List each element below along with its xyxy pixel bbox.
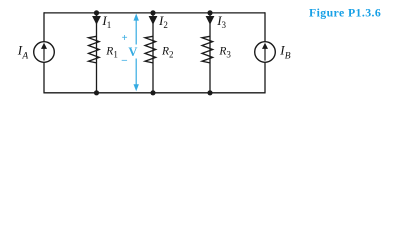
svg-text:I2: I2 (158, 13, 168, 30)
wire branch 2 (152, 13, 154, 93)
node top branch 1 (94, 10, 99, 15)
current source IA (34, 42, 55, 63)
svg-text:–: – (121, 55, 128, 66)
voltage arrow V (134, 14, 139, 92)
wire right branch (264, 12, 266, 93)
current arrow I1 (92, 16, 101, 25)
current arrow I2 (149, 16, 158, 25)
resistor R3 (202, 36, 213, 63)
node bottom branch 1 (94, 90, 99, 95)
node top branch 3 (207, 10, 212, 15)
wire top (44, 12, 265, 14)
svg-text:I3: I3 (216, 13, 226, 30)
resistor R1 (89, 36, 100, 63)
resistor R2 (145, 36, 156, 63)
node bottom branch 2 (150, 90, 155, 95)
wire branch 3 (209, 13, 211, 93)
svg-text:R3: R3 (218, 46, 231, 60)
node top branch 2 (150, 10, 155, 15)
svg-text:V: V (128, 45, 137, 59)
wire bottom (44, 92, 265, 94)
svg-text:IB: IB (279, 43, 291, 62)
wire branch 1 (96, 13, 98, 93)
svg-text:Figure P1.3.6: Figure P1.3.6 (309, 5, 381, 19)
node bottom branch 3 (207, 90, 212, 95)
svg-text:R1: R1 (105, 46, 118, 60)
current arrow I3 (206, 16, 215, 25)
svg-text:R2: R2 (161, 46, 174, 60)
svg-text:I1: I1 (101, 13, 111, 30)
wire left branch (43, 12, 45, 93)
current source IB (255, 42, 276, 63)
svg-text:+: + (122, 33, 128, 44)
svg-text:IA: IA (17, 43, 29, 62)
